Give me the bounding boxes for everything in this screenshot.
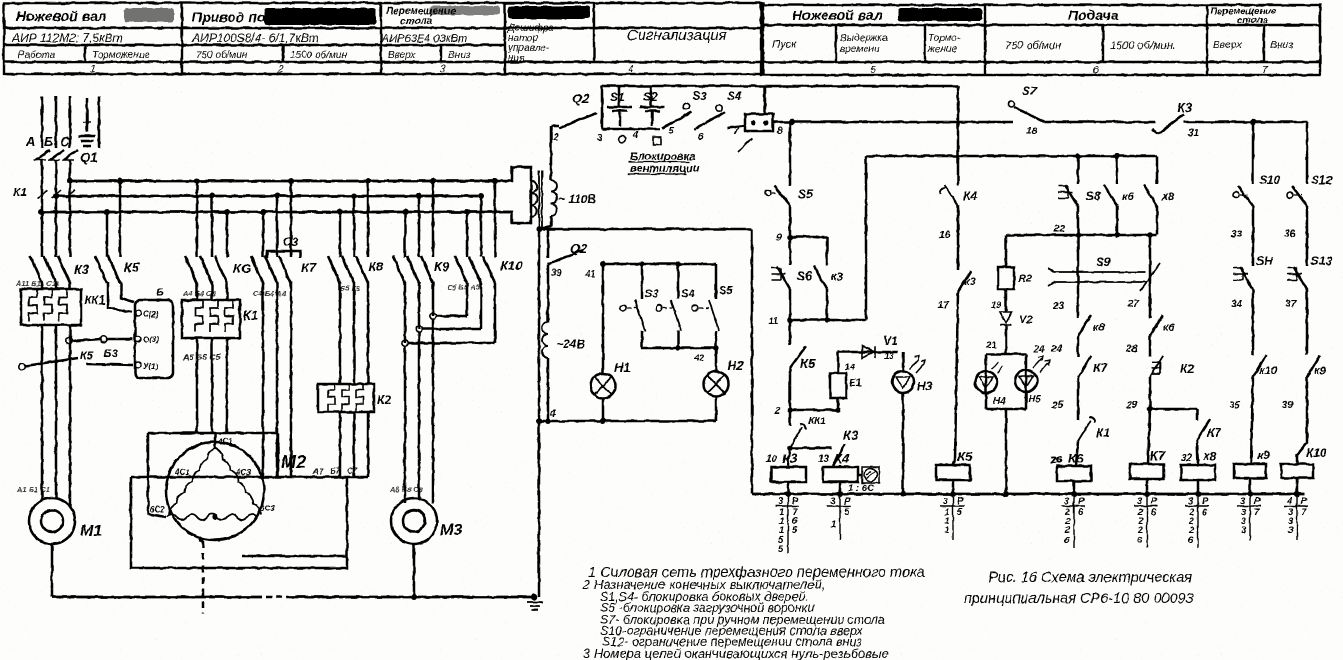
svg-text:8: 8: [777, 126, 783, 137]
svg-text:К8: К8: [368, 259, 384, 274]
svg-text:к3: к3: [831, 271, 843, 283]
svg-text:3 Номера цепей оканчивающихся: 3 Номера цепей оканчивающихся нуль-резьб…: [583, 646, 889, 660]
svg-text:Привод подачи: Привод подачи: [192, 9, 299, 25]
svg-text:34: 34: [1231, 299, 1243, 310]
svg-text:S5: S5: [798, 187, 813, 201]
svg-text:Р: Р: [1078, 496, 1085, 507]
svg-text:О(3): О(3): [143, 335, 159, 344]
svg-text:3: 3: [1241, 525, 1247, 536]
svg-text:С: С: [60, 134, 70, 149]
svg-text:24: 24: [1050, 344, 1063, 355]
svg-text:33: 33: [1231, 229, 1243, 240]
svg-text:Тормо-: Тормо-: [928, 33, 961, 44]
svg-text:S13: S13: [1311, 254, 1333, 268]
svg-text:16: 16: [939, 230, 951, 241]
svg-text:1500 об/мин.: 1500 об/мин.: [1110, 40, 1176, 52]
svg-text:23: 23: [1052, 301, 1065, 312]
svg-text:25: 25: [1051, 400, 1064, 411]
svg-text:6: 6: [1078, 507, 1084, 518]
svg-text:5: 5: [668, 126, 674, 137]
svg-text:S5: S5: [719, 285, 733, 297]
svg-text:к9: к9: [1314, 365, 1327, 377]
svg-text:S6: S6: [797, 269, 812, 283]
svg-text:4С1: 4С1: [174, 468, 190, 477]
svg-text:КК1: КК1: [808, 416, 826, 427]
svg-text:29: 29: [1125, 400, 1138, 411]
svg-text:28: 28: [1125, 344, 1138, 355]
svg-text:3: 3: [1137, 496, 1143, 507]
svg-text:С4 Б4 А4: С4 Б4 А4: [253, 289, 287, 298]
svg-text:26: 26: [1050, 455, 1063, 466]
svg-text:К3: К3: [74, 262, 90, 277]
svg-text:Торможение: Торможение: [92, 50, 150, 61]
svg-text:К1: К1: [1096, 426, 1110, 440]
svg-text:39: 39: [551, 268, 562, 279]
svg-text:КG: КG: [233, 261, 251, 276]
svg-text:Р: Р: [1254, 496, 1261, 507]
svg-text:3: 3: [1288, 525, 1294, 536]
svg-text:3: 3: [440, 64, 446, 75]
svg-text:АИР100S8/4- 6/1,7кВт: АИР100S8/4- 6/1,7кВт: [191, 31, 319, 45]
svg-text:К1: К1: [243, 308, 258, 323]
svg-text:Р: Р: [1151, 496, 1158, 507]
svg-text:А5 Б5 С5: А5 Б5 С5: [182, 352, 220, 362]
svg-text:Б: Б: [44, 134, 53, 149]
svg-text:К4: К4: [963, 189, 977, 203]
svg-text:S3: S3: [692, 89, 707, 103]
svg-text:К2: К2: [377, 393, 391, 407]
svg-text:Б5 Г5: Б5 Г5: [340, 284, 361, 293]
svg-text:С5 Б5 А5: С5 Б5 А5: [447, 283, 481, 292]
svg-text:5: 5: [957, 507, 963, 518]
svg-text:вентиляции: вентиляции: [630, 163, 700, 175]
svg-text:Н5: Н5: [1028, 394, 1041, 405]
svg-text:принципиальная СР6-10 80 000: принципиальная СР6-10 80 00093: [964, 591, 1194, 607]
svg-text:S9: S9: [1096, 255, 1111, 269]
svg-text:к3: к3: [964, 276, 976, 288]
svg-text:6С2: 6С2: [150, 505, 165, 514]
svg-text:Б: Б: [156, 287, 164, 299]
svg-text:К3: К3: [782, 451, 798, 466]
svg-text:750 об/мин: 750 об/мин: [196, 49, 248, 61]
svg-text:Вверх: Вверх: [388, 50, 416, 61]
svg-text:К10: К10: [1306, 446, 1327, 460]
svg-text:11: 11: [768, 316, 779, 327]
svg-text:х8: х8: [1202, 449, 1217, 463]
svg-text:5: 5: [792, 525, 798, 536]
svg-text:1: 1: [90, 64, 96, 75]
svg-text:К3: К3: [843, 428, 859, 443]
svg-text:27: 27: [1127, 299, 1140, 310]
svg-text:5: 5: [870, 65, 876, 76]
svg-text:R2: R2: [1018, 273, 1032, 285]
svg-text:2: 2: [552, 132, 559, 143]
svg-text:Вверх: Вверх: [1213, 39, 1243, 51]
svg-text:37: 37: [1285, 299, 1297, 310]
svg-text:К5: К5: [800, 356, 816, 371]
svg-text:С7: С7: [347, 467, 358, 476]
svg-text:к6: к6: [1163, 322, 1176, 334]
svg-text:14: 14: [845, 362, 855, 372]
svg-text:6: 6: [1202, 507, 1208, 518]
svg-text:Q2: Q2: [570, 241, 588, 256]
svg-text:~ 110В: ~ 110В: [558, 192, 596, 206]
svg-text:6: 6: [698, 132, 704, 143]
svg-text:Ножевой вал: Ножевой вал: [16, 8, 107, 24]
svg-text:У(1): У(1): [143, 362, 159, 371]
svg-text:6: 6: [1093, 65, 1099, 76]
svg-text:ния: ния: [508, 53, 525, 64]
svg-text:х8: х8: [1161, 191, 1175, 203]
svg-text:3: 3: [597, 133, 603, 144]
svg-text:S10: S10: [1259, 173, 1281, 187]
svg-text:К7: К7: [1150, 448, 1166, 463]
svg-text:1: 1: [944, 525, 949, 536]
svg-text:1500 об/мин: 1500 об/мин: [290, 49, 347, 61]
svg-text:жение: жение: [927, 44, 958, 55]
svg-text:М3: М3: [440, 522, 462, 539]
svg-text:S12: S12: [1311, 173, 1333, 187]
svg-text:К7: К7: [1093, 361, 1108, 375]
svg-text:6: 6: [1151, 507, 1157, 518]
svg-text:Подача: Подача: [1068, 7, 1119, 23]
svg-text:4С3: 4С3: [235, 468, 251, 477]
svg-text:3: 3: [778, 496, 784, 507]
svg-text:Р: Р: [792, 496, 799, 507]
svg-text:4: 4: [1286, 496, 1293, 507]
svg-text:4: 4: [628, 64, 634, 75]
svg-text:4: 4: [549, 409, 556, 420]
svg-text:А4 Б4 С4: А4 Б4 С4: [182, 289, 217, 298]
svg-text:7: 7: [733, 126, 739, 137]
svg-text:Б7: Б7: [330, 467, 341, 476]
svg-text:750 об/мин: 750 об/мин: [1005, 40, 1061, 52]
svg-text:Работа: Работа: [18, 49, 56, 61]
svg-text:3: 3: [943, 496, 949, 507]
svg-text:24: 24: [1033, 344, 1045, 355]
svg-text:А11 Б11 С11: А11 Б11 С11: [15, 279, 60, 288]
svg-text:6: 6: [1188, 535, 1194, 546]
svg-text:4: 4: [632, 130, 639, 141]
svg-text:к9: к9: [1257, 448, 1270, 462]
svg-text:4С1: 4С1: [217, 437, 233, 446]
svg-text:32: 32: [1181, 453, 1193, 464]
svg-text:35: 35: [1229, 400, 1241, 411]
svg-text:SН: SН: [1256, 254, 1273, 268]
svg-text:А1 Б1 С1: А1 Б1 С1: [16, 485, 50, 494]
svg-text:К2: К2: [1180, 362, 1194, 376]
svg-text:М2: М2: [281, 452, 306, 472]
svg-text:стола: стола: [1237, 15, 1268, 26]
svg-text:Н1: Н1: [614, 360, 631, 375]
svg-text:Р: Р: [957, 496, 964, 507]
svg-text:к8: к8: [1093, 322, 1106, 334]
svg-text:22: 22: [1053, 224, 1066, 235]
svg-text:S7: S7: [1022, 84, 1038, 98]
svg-text:Q2: Q2: [572, 91, 590, 106]
svg-text:К4: К4: [834, 451, 850, 466]
svg-text:V2: V2: [1019, 314, 1032, 326]
svg-text:Сигнализация: Сигнализация: [627, 27, 727, 44]
svg-text:6С3: 6С3: [260, 504, 275, 513]
svg-text:А7: А7: [312, 467, 324, 476]
svg-text:КК1: КК1: [84, 293, 106, 307]
svg-text:9: 9: [776, 233, 782, 244]
svg-text:С3: С3: [283, 235, 299, 249]
svg-text:7: 7: [1301, 507, 1307, 518]
svg-text:21: 21: [985, 340, 997, 351]
svg-text:7: 7: [1254, 507, 1260, 518]
svg-text:S3: S3: [645, 288, 658, 300]
svg-text:17: 17: [938, 300, 950, 311]
svg-text:13: 13: [884, 351, 894, 361]
svg-text:К10: К10: [500, 258, 523, 273]
svg-text:к6: к6: [1122, 191, 1135, 203]
svg-text:10: 10: [766, 454, 778, 465]
svg-text:S8: S8: [1086, 189, 1101, 203]
svg-text:Рис. 16 Схема электрическая: Рис. 16 Схема электрическая: [988, 570, 1192, 586]
svg-text:3: 3: [1188, 496, 1194, 507]
svg-text:1: 1: [831, 519, 836, 530]
svg-text:39: 39: [1282, 400, 1294, 411]
svg-text:13: 13: [818, 454, 830, 465]
svg-text:Вниз: Вниз: [1270, 39, 1294, 51]
svg-text:К7: К7: [301, 260, 317, 275]
svg-text:2: 2: [277, 64, 284, 75]
svg-text:3: 3: [1240, 496, 1246, 507]
svg-text:S2: S2: [643, 90, 658, 104]
svg-text:5: 5: [844, 507, 850, 518]
svg-text:7: 7: [1262, 65, 1268, 76]
svg-text:S4: S4: [727, 89, 742, 103]
svg-text:К1: К1: [13, 185, 27, 199]
svg-text:Б3: Б3: [104, 348, 118, 360]
svg-text:6: 6: [1137, 535, 1143, 546]
svg-text:К5: К5: [124, 260, 140, 275]
svg-text:АИР63Е4 03кВт: АИР63Е4 03кВт: [381, 33, 467, 45]
svg-text:К7: К7: [1207, 426, 1222, 440]
svg-text:К5: К5: [957, 449, 973, 464]
svg-text:К9: К9: [434, 259, 450, 274]
svg-text:V1: V1: [883, 334, 898, 348]
svg-text:36: 36: [1284, 229, 1296, 240]
svg-text:времени: времени: [840, 44, 880, 55]
svg-text:стола: стола: [400, 16, 433, 27]
svg-text:31: 31: [1188, 128, 1200, 139]
svg-text:42: 42: [693, 353, 705, 364]
svg-text:к10: к10: [1259, 365, 1278, 377]
svg-text:Q1: Q1: [80, 150, 97, 165]
svg-text:19: 19: [991, 300, 1001, 310]
svg-text:К3: К3: [1177, 100, 1193, 115]
svg-text:Е1: Е1: [849, 378, 862, 389]
svg-text:Н4: Н4: [993, 396, 1006, 407]
svg-text:Блокировка: Блокировка: [630, 151, 696, 163]
svg-text:АИР 112М2: 7,5кВт: АИР 112М2: 7,5кВт: [11, 31, 123, 45]
svg-text:М1: М1: [80, 523, 102, 540]
svg-text:3: 3: [830, 496, 836, 507]
svg-text:Пуск: Пуск: [772, 39, 797, 51]
svg-text:Вниз: Вниз: [448, 50, 471, 61]
svg-text:Выдержка: Выдержка: [840, 33, 888, 44]
svg-text:Р: Р: [1301, 496, 1308, 507]
svg-text:1 : 6С: 1 : 6С: [848, 483, 874, 494]
svg-text:6: 6: [1064, 535, 1070, 546]
svg-text:Н2: Н2: [727, 358, 744, 373]
svg-text:А: А: [25, 134, 35, 149]
svg-text:2: 2: [774, 406, 781, 417]
svg-text:S1: S1: [610, 90, 625, 104]
svg-text:К6: К6: [1068, 451, 1084, 466]
svg-text:3: 3: [1064, 496, 1070, 507]
svg-text:41: 41: [584, 269, 596, 280]
svg-text:S4: S4: [681, 288, 694, 300]
svg-text:Н3: Н3: [917, 379, 933, 393]
svg-text:~24В: ~24В: [556, 337, 585, 351]
svg-text:С(2): С(2): [143, 310, 159, 319]
svg-text:Ножевой вал: Ножевой вал: [792, 7, 883, 23]
svg-text:Р: Р: [844, 496, 851, 507]
svg-text:А8 Б8 С8: А8 Б8 С8: [389, 485, 424, 494]
svg-text:Р: Р: [1202, 496, 1209, 507]
svg-text:18: 18: [1026, 126, 1038, 137]
svg-text:5: 5: [778, 544, 784, 555]
svg-text:К5: К5: [80, 350, 94, 362]
